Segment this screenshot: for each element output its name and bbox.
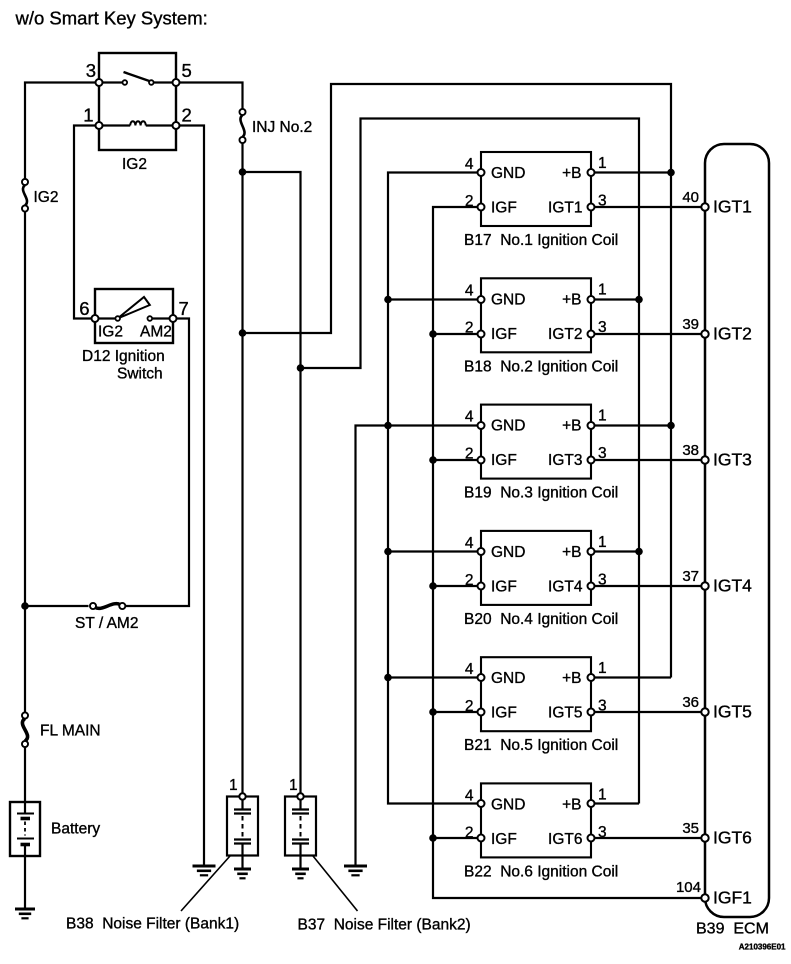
- svg-text:B21 No.5 Ignition Coil: B21 No.5 Ignition Coil: [464, 737, 618, 754]
- svg-text:4: 4: [465, 282, 474, 299]
- svg-text:IGT1: IGT1: [713, 197, 752, 217]
- svg-text:7: 7: [179, 298, 189, 319]
- svg-text:GND: GND: [491, 670, 525, 687]
- svg-text:1: 1: [598, 281, 607, 298]
- svg-text:GND: GND: [491, 418, 525, 435]
- svg-text:D12 Ignition: D12 Ignition: [82, 348, 165, 365]
- svg-text:w/o Smart Key System:: w/o Smart Key System:: [15, 8, 208, 29]
- svg-text:IGT4: IGT4: [713, 576, 752, 596]
- svg-text:2: 2: [182, 105, 192, 126]
- svg-text:B37 Noise Filter (Bank2): B37 Noise Filter (Bank2): [298, 917, 471, 934]
- svg-text:B39 ECM: B39 ECM: [696, 921, 769, 938]
- svg-text:2: 2: [465, 824, 474, 841]
- svg-text:IGF: IGF: [491, 452, 517, 469]
- svg-text:IGF: IGF: [491, 705, 517, 722]
- svg-text:3: 3: [598, 445, 607, 462]
- svg-text:GND: GND: [491, 796, 525, 813]
- svg-text:IGT5: IGT5: [548, 705, 582, 722]
- svg-text:104: 104: [676, 879, 701, 896]
- svg-text:GND: GND: [491, 165, 525, 182]
- svg-text:GND: GND: [491, 544, 525, 561]
- svg-text:+B: +B: [562, 544, 581, 561]
- svg-text:4: 4: [465, 156, 474, 173]
- svg-text:IGT3: IGT3: [713, 450, 752, 470]
- svg-text:B22 No.6 Ignition Coil: B22 No.6 Ignition Coil: [464, 863, 618, 880]
- svg-text:3: 3: [598, 319, 607, 336]
- svg-text:B19 No.3 Ignition Coil: B19 No.3 Ignition Coil: [464, 485, 618, 502]
- svg-text:37: 37: [682, 568, 699, 585]
- svg-text:IGF1: IGF1: [713, 888, 752, 908]
- svg-text:Switch: Switch: [117, 366, 163, 383]
- svg-text:AM2: AM2: [140, 324, 172, 341]
- svg-text:5: 5: [182, 60, 192, 81]
- svg-text:40: 40: [682, 189, 699, 206]
- svg-text:IGT1: IGT1: [548, 200, 582, 217]
- svg-text:+B: +B: [562, 418, 581, 435]
- svg-text:2: 2: [465, 572, 474, 589]
- svg-text:IGF: IGF: [491, 578, 517, 595]
- svg-text:Battery: Battery: [51, 821, 100, 838]
- svg-text:1: 1: [598, 534, 607, 551]
- svg-text:INJ No.2: INJ No.2: [252, 119, 312, 136]
- svg-text:+B: +B: [562, 796, 581, 813]
- svg-text:35: 35: [682, 820, 699, 837]
- svg-text:1: 1: [598, 786, 607, 803]
- svg-text:IGT6: IGT6: [713, 828, 752, 848]
- svg-text:1: 1: [598, 660, 607, 677]
- svg-text:IGT5: IGT5: [713, 702, 752, 722]
- svg-text:2: 2: [465, 698, 474, 715]
- svg-text:IGT4: IGT4: [548, 578, 583, 595]
- svg-text:3: 3: [86, 60, 96, 81]
- svg-text:IGT6: IGT6: [548, 831, 582, 848]
- svg-text:FL MAIN: FL MAIN: [40, 723, 101, 740]
- svg-text:38: 38: [682, 442, 699, 459]
- svg-text:1: 1: [598, 408, 607, 425]
- svg-text:2: 2: [465, 319, 474, 336]
- svg-text:IG2: IG2: [34, 189, 59, 206]
- svg-text:2: 2: [465, 446, 474, 463]
- svg-text:+B: +B: [562, 291, 581, 308]
- svg-text:3: 3: [598, 824, 607, 841]
- svg-text:3: 3: [598, 571, 607, 588]
- svg-text:IGF: IGF: [491, 326, 517, 343]
- svg-text:4: 4: [465, 409, 474, 426]
- svg-text:A210396E01: A210396E01: [739, 943, 786, 952]
- svg-text:B17 No.1 Ignition Coil: B17 No.1 Ignition Coil: [464, 232, 618, 249]
- svg-text:1: 1: [289, 777, 298, 794]
- svg-text:IGT2: IGT2: [548, 326, 582, 343]
- svg-text:IG2: IG2: [122, 156, 147, 173]
- svg-text:+B: +B: [562, 670, 581, 687]
- svg-text:ST / AM2: ST / AM2: [75, 615, 138, 632]
- svg-text:1: 1: [83, 105, 93, 126]
- svg-text:1: 1: [229, 777, 238, 794]
- svg-text:3: 3: [598, 698, 607, 715]
- svg-text:4: 4: [465, 661, 474, 678]
- svg-text:GND: GND: [491, 291, 525, 308]
- svg-text:IGT3: IGT3: [548, 452, 582, 469]
- svg-text:4: 4: [465, 535, 474, 552]
- svg-text:4: 4: [465, 787, 474, 804]
- svg-text:IGF: IGF: [491, 831, 517, 848]
- svg-text:B20 No.4 Ignition Coil: B20 No.4 Ignition Coil: [464, 611, 618, 628]
- svg-text:+B: +B: [562, 165, 581, 182]
- svg-text:36: 36: [682, 694, 699, 711]
- svg-text:1: 1: [598, 155, 607, 172]
- svg-text:IG2: IG2: [98, 324, 123, 341]
- svg-text:2: 2: [465, 193, 474, 210]
- svg-text:B38 Noise Filter (Bank1): B38 Noise Filter (Bank1): [66, 916, 239, 933]
- svg-text:B18 No.2 Ignition Coil: B18 No.2 Ignition Coil: [464, 358, 618, 375]
- svg-text:3: 3: [598, 193, 607, 210]
- svg-text:6: 6: [79, 298, 89, 319]
- svg-text:IGT2: IGT2: [713, 324, 752, 344]
- svg-text:IGF: IGF: [491, 200, 517, 217]
- svg-text:39: 39: [682, 316, 699, 333]
